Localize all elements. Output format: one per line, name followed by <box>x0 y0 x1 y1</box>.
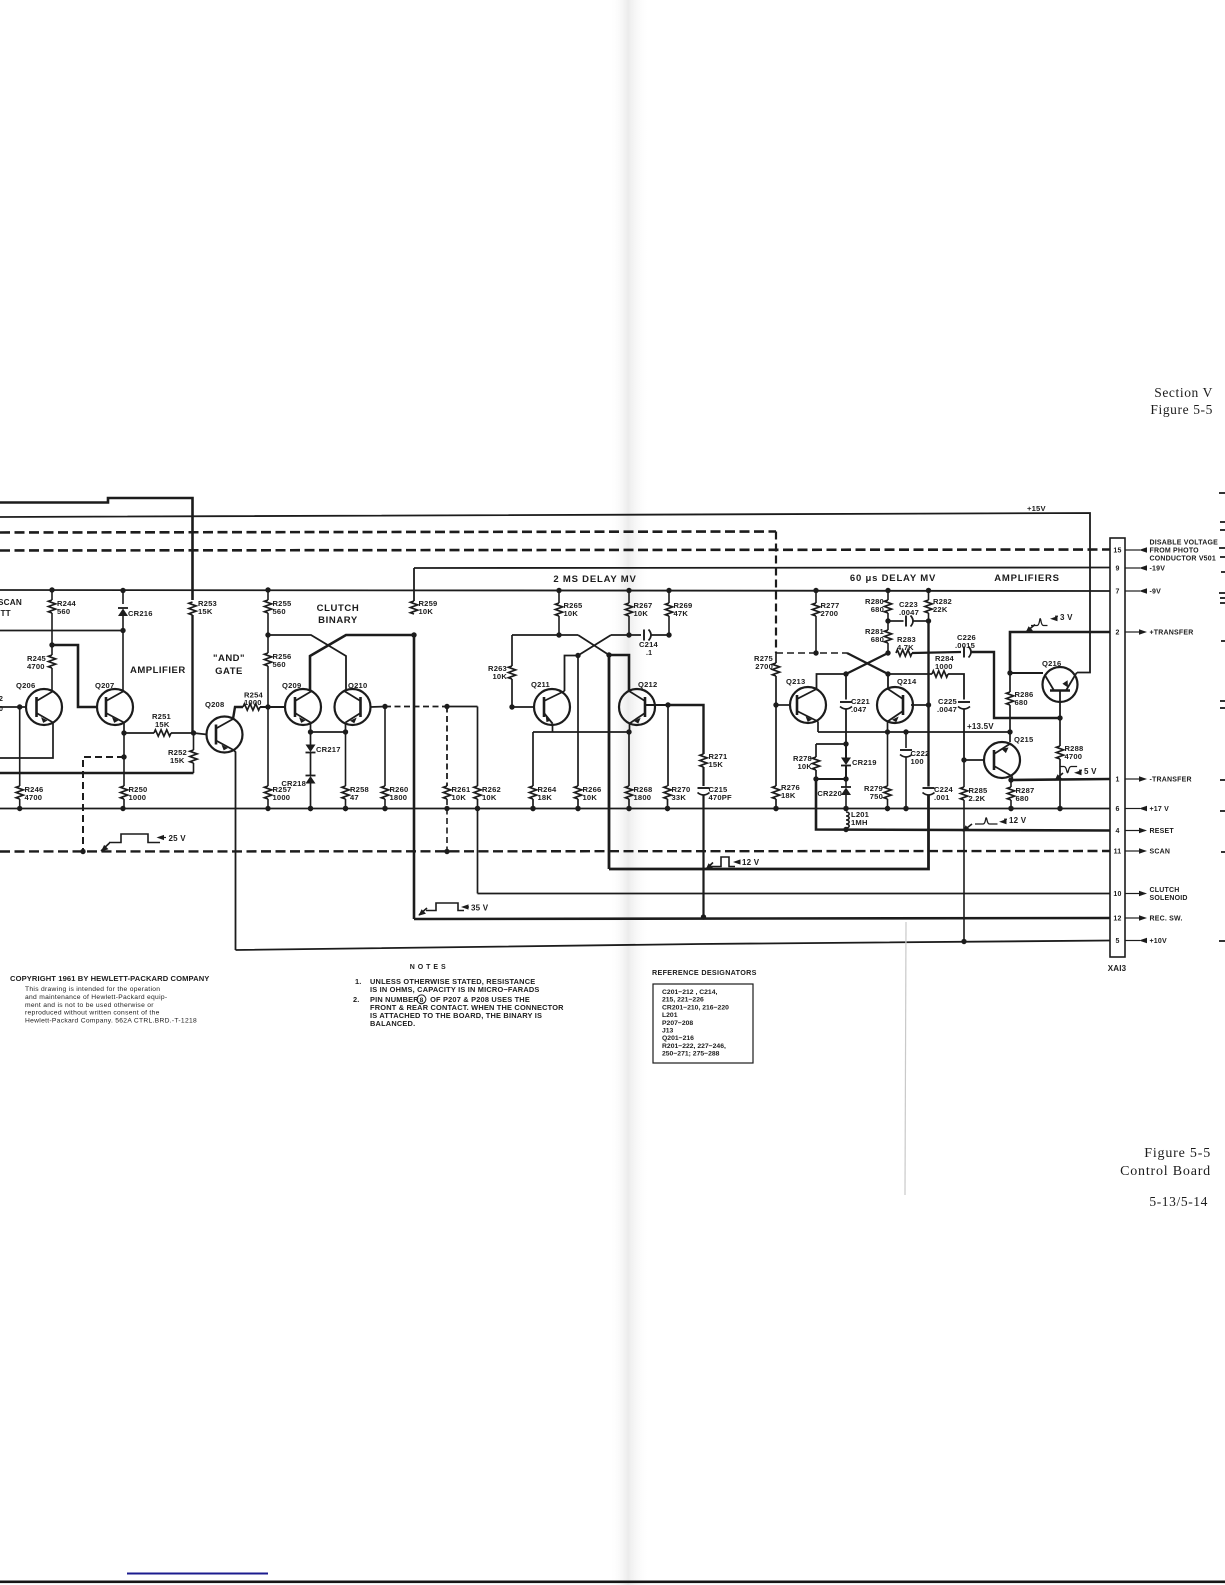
svg-text:12 V: 12 V <box>742 858 760 867</box>
svg-text:CR218: CR218 <box>281 779 306 788</box>
svg-text:DISABLE VOLTAGE: DISABLE VOLTAGE <box>1150 540 1219 547</box>
wire Q212 emitter <box>629 724 631 733</box>
resistor R255 <box>265 587 270 592</box>
wire 2ms coupling bar y=635 <box>512 634 578 636</box>
svg-text:35 V: 35 V <box>471 904 489 913</box>
svg-text:5 V: 5 V <box>1084 767 1097 776</box>
svg-text:680: 680 <box>871 605 884 614</box>
svg-text:-19V: -19V <box>1150 566 1166 573</box>
svg-text:Figure 5-5: Figure 5-5 <box>1144 1146 1211 1161</box>
resistor R278 <box>815 744 817 757</box>
resistor R246 <box>19 707 21 786</box>
svg-text:18K: 18K <box>538 793 553 802</box>
svg-text:CONDUCTOR V501: CONDUCTOR V501 <box>1150 556 1216 563</box>
svg-text:18K: 18K <box>781 791 796 800</box>
svg-text:SCAN: SCAN <box>1150 849 1171 856</box>
resistor R269 <box>666 588 671 593</box>
diode CR219 <box>845 744 847 758</box>
svg-text:CLUTCH: CLUTCH <box>317 603 360 614</box>
wire Q214 collector <box>887 674 889 689</box>
capacitor C223 <box>888 620 904 622</box>
svg-text:Q206: Q206 <box>16 681 35 690</box>
wire node drop through to R266 <box>577 656 579 787</box>
resistor R245 <box>49 642 54 647</box>
svg-text:1800: 1800 <box>634 793 652 802</box>
wire dashed bus to pin 15 <box>0 550 1110 551</box>
svg-text:10: 10 <box>1113 891 1121 898</box>
resistor R250 <box>120 786 127 799</box>
svg-text:2.2K: 2.2K <box>969 794 986 803</box>
svg-text:Q208: Q208 <box>205 700 224 709</box>
svg-text:Q201−216: Q201−216 <box>662 1035 694 1042</box>
svg-text:GATE: GATE <box>215 666 243 677</box>
svg-text:+17 V: +17 V <box>1150 806 1170 813</box>
wire Q211 collector to node <box>565 656 579 692</box>
svg-text:Control Board: Control Board <box>1120 1164 1211 1179</box>
svg-text:2700: 2700 <box>821 609 839 618</box>
svg-text:reproduced without written: reproduced without written consent of th… <box>25 1010 160 1017</box>
svg-text:5-13/5-14: 5-13/5-14 <box>1149 1194 1208 1209</box>
inductor L201 <box>846 812 849 828</box>
resistor R257 <box>267 707 269 786</box>
svg-text:250−271; 275−288: 250−271; 275−288 <box>662 1051 720 1058</box>
resistor R270 <box>667 705 669 786</box>
svg-text:Section V: Section V <box>1154 385 1213 400</box>
svg-text:BALANCED.: BALANCED. <box>370 1019 415 1028</box>
resistor R281 <box>884 630 891 643</box>
resistor R252 <box>190 750 197 763</box>
svg-text:CR201−210, 216−220: CR201−210, 216−220 <box>662 1004 729 1011</box>
svg-text:2700: 2700 <box>755 662 773 671</box>
wire Q213 collector to node <box>817 674 847 689</box>
resistor R261 <box>443 786 450 799</box>
svg-text:1.: 1. <box>355 977 362 986</box>
svg-text:4700: 4700 <box>25 793 43 802</box>
capacitor C214 <box>643 630 645 641</box>
svg-text:IS IN OHMS, CAPACITY IS IN MIC: IS IN OHMS, CAPACITY IS IN MICRO−FARADS <box>370 985 540 994</box>
svg-text:4.7K: 4.7K <box>897 643 914 652</box>
wire dashed drop to 60us section <box>775 532 777 654</box>
wire Q216 base down <box>1059 691 1061 719</box>
wire +TRANSFER to pin 2 thick <box>1010 632 1110 673</box>
svg-text:Q213: Q213 <box>786 677 805 686</box>
wire +10V line to pin 5 <box>236 941 1111 951</box>
svg-text:+10V: +10V <box>1150 938 1167 945</box>
capacitor C226 <box>912 652 961 653</box>
svg-text:25 V: 25 V <box>169 834 187 843</box>
svg-text:CLUTCH: CLUTCH <box>1150 887 1180 894</box>
junction dots on +17V rail <box>17 806 22 811</box>
diode CR218 <box>310 753 312 775</box>
wire Q206 base stub from sheet edge <box>0 706 26 708</box>
wire Q211/Q212 emitter rail with R264 <box>552 724 554 733</box>
svg-text:CR216: CR216 <box>128 609 153 618</box>
svg-text:3 V: 3 V <box>1060 613 1073 622</box>
wire clutch binary cross coupling thick from R259 <box>310 635 414 690</box>
wire emitter rail +13.5V <box>817 722 819 733</box>
scan artifact bottom page edge <box>0 1581 1225 1584</box>
svg-text:.001: .001 <box>934 793 950 802</box>
wire Q215 base <box>964 759 984 761</box>
svg-text:Q215: Q215 <box>1014 735 1034 744</box>
wire +15V bus <box>0 513 1090 673</box>
resistor R284 <box>888 673 932 675</box>
svg-text:680: 680 <box>1015 698 1028 707</box>
resistor R262 <box>477 707 479 787</box>
wire thick coupling U to C224 <box>609 796 929 870</box>
svg-text:10K: 10K <box>583 793 598 802</box>
svg-text:15K: 15K <box>709 760 724 769</box>
resistor R275 <box>775 653 777 663</box>
wire 2ms cross diagonals <box>578 635 609 655</box>
diode CR217 <box>310 732 312 745</box>
svg-text:560: 560 <box>57 607 70 616</box>
resistor R266 <box>574 786 581 799</box>
wire Q210 base dashed to -19V drop <box>371 706 386 709</box>
wire clutch binary cross coupling thin <box>268 635 346 690</box>
svg-text:CR219: CR219 <box>852 758 877 767</box>
svg-text:10K: 10K <box>634 609 649 618</box>
svg-text:-9V: -9V <box>1150 589 1162 596</box>
svg-text:1MH: 1MH <box>851 818 868 827</box>
svg-text:COPYRIGHT 1961 BY HEWLETT-PA: COPYRIGHT 1961 BY HEWLETT-PACKARD COMPAN… <box>10 974 209 983</box>
resistor R254 <box>243 704 260 710</box>
svg-text:10K: 10K <box>452 793 467 802</box>
svg-text:12: 12 <box>1113 916 1121 923</box>
resistor R265 <box>556 588 561 593</box>
svg-text:33K: 33K <box>672 793 687 802</box>
svg-text:470PF: 470PF <box>709 793 733 802</box>
wire Q216 emitter from +15V drop <box>1076 673 1078 675</box>
svg-text:.0015: .0015 <box>955 641 976 650</box>
svg-text:Q211: Q211 <box>531 680 551 689</box>
resistor R283 <box>896 650 912 656</box>
svg-text:6: 6 <box>1115 806 1119 813</box>
svg-text:Q212: Q212 <box>638 680 657 689</box>
resistor R253 on thick drop <box>189 602 196 615</box>
resistor R244 <box>49 587 54 592</box>
wire C224 to Q214 base node <box>927 621 929 787</box>
svg-text:and maintenance of Hewlett-: and maintenance of Hewlett-Packard equip… <box>25 994 167 1001</box>
resistor R287 <box>1010 780 1012 787</box>
wire 60us cross coupling <box>776 652 847 654</box>
wire Q211 base <box>512 706 534 708</box>
capacitor C224 <box>923 787 935 789</box>
wire +17V rail to pin 6 <box>0 808 1110 810</box>
scan artifact blue pen line <box>127 1573 268 1575</box>
svg-text:N O T E S: N O T E S <box>410 964 446 971</box>
pulse 35V on rec sw line <box>419 908 427 915</box>
wire -TRANSFER line to pin 1 thick <box>1011 779 1110 780</box>
wire Q216 collector tap <box>1010 672 1043 674</box>
svg-text:10K: 10K <box>419 607 434 616</box>
svg-text:750: 750 <box>870 792 883 801</box>
svg-text:15K: 15K <box>170 756 185 765</box>
resistor R260 <box>384 707 386 787</box>
svg-text:AMPLIFIERS: AMPLIFIERS <box>994 573 1060 584</box>
wire Q206 emitter to sheet edge <box>0 723 53 759</box>
resistor R256 <box>264 653 271 666</box>
wire dashed from Q207 emitter to scan bus <box>123 733 125 786</box>
wire to Q208 base <box>194 733 208 735</box>
svg-text:R201−222, 227−246,: R201−222, 227−246, <box>662 1043 726 1050</box>
wire Q207 emitter node <box>123 723 125 734</box>
wire thick Q206 collector to Q207 base <box>52 645 98 707</box>
svg-text:J13: J13 <box>662 1028 674 1035</box>
wire CR219/CR220 node <box>816 778 846 780</box>
resistor R271 <box>700 754 707 767</box>
resistor R286 <box>1009 673 1011 692</box>
resistor R280 <box>885 588 890 593</box>
svg-text:C214: C214 <box>639 640 659 649</box>
svg-text:47: 47 <box>350 793 359 802</box>
svg-text:9: 9 <box>1115 566 1119 573</box>
svg-text:215, 221−226: 215, 221−226 <box>662 997 704 1004</box>
pulse 12V on reset line <box>963 824 972 831</box>
wire -9V rail to pin 7 <box>0 590 1110 591</box>
pulse 12V on coupling line <box>706 863 713 870</box>
resistor R251 <box>154 730 171 736</box>
svg-text:560: 560 <box>273 607 286 616</box>
svg-text:47K: 47K <box>674 609 689 618</box>
wire RESET line to pin 4 thick <box>816 779 1110 831</box>
resistor R268 <box>628 732 630 786</box>
wire Q213 base <box>776 704 790 706</box>
wire left line into CR216 node <box>0 630 123 632</box>
svg-text:Q214: Q214 <box>897 677 917 686</box>
wire Q209/Q210 emitter rail <box>310 723 312 733</box>
svg-text:SOLENOID: SOLENOID <box>1150 895 1188 902</box>
svg-text:1800: 1800 <box>390 793 408 802</box>
resistor R277 <box>813 588 818 593</box>
svg-text:Figure 5-5: Figure 5-5 <box>1150 402 1213 417</box>
svg-text:4: 4 <box>1115 828 1119 835</box>
svg-text:10K: 10K <box>564 609 579 618</box>
svg-text:1000: 1000 <box>935 662 953 671</box>
svg-text:Hewlett-Packard Company. 56: Hewlett-Packard Company. 562A CTRL.BRD.-… <box>25 1018 197 1025</box>
svg-text:11: 11 <box>1114 849 1122 856</box>
wire R278/CR219 bridge <box>816 743 846 745</box>
svg-text:AMPLIFIER: AMPLIFIER <box>130 665 186 676</box>
svg-text:15K: 15K <box>198 607 213 616</box>
resistor R276 <box>775 705 777 786</box>
svg-text:.1: .1 <box>646 650 652 657</box>
wire Q208 collector to R254 <box>233 707 243 719</box>
svg-text:100: 100 <box>911 757 924 766</box>
svg-text:1000: 1000 <box>244 698 262 707</box>
wire thick bus y=773 from sheet edge <box>0 772 194 775</box>
svg-text:2 MS DELAY MV: 2 MS DELAY MV <box>553 574 636 585</box>
svg-text:10K: 10K <box>492 672 507 681</box>
svg-text:REC. SW.: REC. SW. <box>1150 916 1183 923</box>
svg-text:REFERENCE DESIGNATORS: REFERENCE DESIGNATORS <box>652 968 757 977</box>
svg-text:+TRANSFER: +TRANSFER <box>1150 630 1194 637</box>
wire CLUTCH SOLENOID line to pin 10 <box>478 893 1111 895</box>
connector XA13 body <box>1110 538 1125 957</box>
capacitor C221 <box>845 674 847 700</box>
svg-text:2: 2 <box>1115 630 1119 637</box>
svg-text:60 μs DELAY MV: 60 μs DELAY MV <box>850 573 936 584</box>
svg-text:15: 15 <box>1113 548 1121 555</box>
svg-text:1000: 1000 <box>273 793 291 802</box>
svg-text:10K: 10K <box>482 793 497 802</box>
diode CR216 <box>120 588 125 593</box>
wire C215 drop to REC SW line <box>702 795 704 918</box>
capacitor C222 <box>905 732 907 748</box>
wire Q208 emitter long drop to +10V line <box>234 750 236 950</box>
svg-text:560: 560 <box>273 660 286 669</box>
svg-text:-TRANSFER: -TRANSFER <box>1150 777 1192 784</box>
resistor R264 <box>532 732 534 786</box>
svg-text:"AND": "AND" <box>213 653 245 664</box>
wire Q212 collector thick <box>609 655 629 691</box>
wire base line y733 with R251 <box>124 732 154 734</box>
scan artifact right edge ticks <box>1219 492 1225 494</box>
svg-text:5: 5 <box>1115 938 1119 945</box>
resistor R259 <box>410 601 417 614</box>
svg-text:CR217: CR217 <box>316 745 341 754</box>
svg-text:7: 7 <box>1115 589 1119 596</box>
svg-text:1000: 1000 <box>129 793 147 802</box>
wire Q214 base to vertical <box>911 704 929 706</box>
svg-text:SCAN: SCAN <box>0 598 22 607</box>
resistor R282 <box>926 588 931 593</box>
svg-text:12 V: 12 V <box>1009 816 1027 825</box>
svg-text:2: 2 <box>0 696 3 703</box>
resistor R285 <box>963 760 965 787</box>
wire Q212 base to R270/R271 node <box>646 704 668 706</box>
wire -19V bus to pin 9 <box>414 567 1110 570</box>
resistor R258 <box>345 732 347 786</box>
svg-text:4700: 4700 <box>27 662 45 671</box>
svg-text:XAI3: XAI3 <box>1108 964 1127 973</box>
diode CR220 <box>845 779 847 787</box>
svg-text:2.: 2. <box>353 995 360 1004</box>
svg-text:L201: L201 <box>662 1012 678 1019</box>
svg-text:This drawing is intended f: This drawing is intended for the operati… <box>25 986 160 993</box>
resistor R279 <box>887 732 889 786</box>
svg-text:1: 1 <box>1115 777 1119 784</box>
pulse 3V on +transfer <box>1026 625 1035 633</box>
svg-text:+15V: +15V <box>1027 504 1046 513</box>
svg-text:+13.5V: +13.5V <box>967 722 994 731</box>
wire dashed drop to SCAN bus with R261 <box>444 704 449 709</box>
pulse 25V on scan bus <box>101 843 110 851</box>
svg-text:22K: 22K <box>933 605 948 614</box>
svg-text:.047: .047 <box>851 705 867 714</box>
resistor R263 branch <box>511 635 513 666</box>
wire -19V vertical / R259 branch top <box>413 568 415 601</box>
svg-text:10K: 10K <box>797 762 812 771</box>
svg-text:4700: 4700 <box>1065 752 1083 761</box>
scan artifact faint crease <box>905 922 906 1195</box>
wire top thick feed from left sheet <box>0 498 193 600</box>
capacitor C225 <box>958 701 970 703</box>
svg-text:.0047: .0047 <box>899 608 919 617</box>
svg-text:BINARY: BINARY <box>318 615 358 626</box>
resistor R267 <box>626 588 631 593</box>
wire +13.5 node to Q215 collector <box>1009 718 1011 742</box>
svg-text:P207−208: P207−208 <box>662 1020 693 1027</box>
wire to clutch solenoid drop <box>447 706 478 708</box>
wire Q209 base <box>268 706 285 708</box>
svg-text:680: 680 <box>1016 794 1029 803</box>
svg-text:C201−212 , C214,: C201−212 , C214, <box>662 989 717 996</box>
svg-text:.0047: .0047 <box>937 705 957 714</box>
svg-text:15K: 15K <box>155 720 170 729</box>
wire R259 thick drop continues to REC SW line <box>413 635 416 919</box>
wire Q212 output thick drop <box>608 655 611 869</box>
svg-text:FROM PHOTO: FROM PHOTO <box>1150 548 1200 555</box>
wire thick to R271 <box>668 705 704 754</box>
wire REC SW line to pin 12 <box>414 918 1110 919</box>
svg-text:RESET: RESET <box>1150 828 1175 835</box>
svg-text:ITT: ITT <box>0 609 11 618</box>
pulse -5V on -transfer <box>1055 773 1063 780</box>
svg-text:CR220: CR220 <box>817 789 842 798</box>
capacitor C215 <box>698 787 710 789</box>
resistor R288 <box>1059 718 1061 746</box>
wire C226 to Q216 base node thick <box>971 652 1061 718</box>
wire dashed bus upper <box>0 532 776 533</box>
svg-text:ment and is not to be us: ment and is not to be used otherwise or <box>25 1002 154 1009</box>
svg-text:680: 680 <box>871 635 884 644</box>
wire SCAN dashed bus to pin 11 <box>0 850 1110 853</box>
wire Q215 emitter to -TRANSFER <box>1011 777 1013 781</box>
